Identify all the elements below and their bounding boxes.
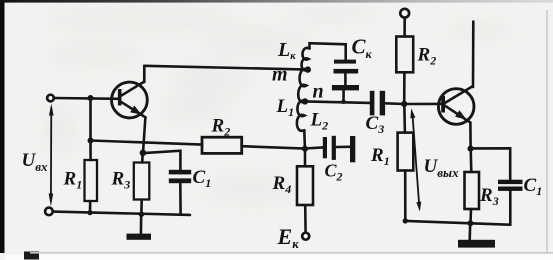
terminal Ek — [302, 233, 309, 240]
node: R1 rail dot — [87, 210, 92, 215]
voltage arrow Uvyx — [410, 108, 421, 211]
ground (stage 2) — [458, 223, 495, 247]
wire: R3 to rail — [140, 200, 143, 215]
wire: J2 to R1 — [89, 141, 92, 161]
ground (stage 1) — [127, 214, 152, 240]
wire: C1 to rail — [509, 191, 512, 225]
input terminal bottom — [45, 208, 53, 216]
wire: base node to R1 — [403, 104, 406, 133]
capacitor C3 — [370, 91, 385, 116]
node: base junction J1 — [88, 95, 94, 101]
wire: C1 to rail — [179, 183, 182, 214]
wire: R3 to rail — [469, 209, 472, 223]
resistor R1 (stage 2) — [398, 133, 414, 171]
wire: R2 to tank bottom — [242, 146, 305, 148]
wire: collector line to tank tap m — [144, 66, 307, 70]
input terminal top — [47, 95, 54, 102]
wire: input to Q1 base — [54, 97, 118, 100]
node: R3 rail dot — [139, 211, 145, 217]
wire: R4 to Ek terminal — [304, 205, 307, 233]
wire: Q2 emitter down — [469, 122, 472, 148]
wire: R1 to rail — [404, 171, 407, 221]
voltage arrow Uvx — [49, 104, 54, 207]
wire: J2 to R2 (line A) — [91, 141, 203, 145]
wire: Q1 emitter down — [143, 117, 145, 152]
node: tank bottom junction J5 — [302, 146, 308, 152]
wire: J3 to R3 — [141, 153, 144, 163]
node: R1 top junction J2 — [88, 138, 94, 144]
svg-text:m: m — [272, 64, 288, 86]
wire: C3 to base node — [385, 102, 404, 105]
supply terminal — [400, 9, 409, 18]
wire: Q1 collector up — [143, 66, 146, 82]
node: Q2 base node J6 — [401, 101, 407, 107]
wire: coil top lead to Ck — [310, 43, 346, 59]
wire: J7 to C1 corner — [471, 148, 511, 179]
wire: J5 to R4 — [304, 149, 307, 167]
wire: R2 down to base node — [403, 72, 406, 104]
node: tap n — [302, 98, 308, 104]
capacitor Ck — [332, 60, 359, 91]
wire: J1 down to R1 node — [89, 98, 92, 141]
wire: Ck bottom lead — [342, 90, 345, 101]
transistor Q1 — [111, 82, 147, 118]
inductor coil Lk/L1/L2 — [297, 48, 310, 131]
node: tap m — [305, 66, 311, 72]
wire: R2 to supply terminal — [403, 18, 406, 37]
capacitor C1 (stage 2) — [498, 180, 523, 191]
wire: n-line to C3 — [305, 101, 370, 103]
wire: J7 to R3 — [469, 149, 472, 172]
node: emitter junction J3 — [140, 150, 147, 157]
node: Ck on n-line — [341, 99, 346, 104]
wire: Q2 collector up — [472, 22, 475, 88]
node: emitter junction J7 — [468, 146, 474, 152]
resistor R4 — [297, 166, 313, 205]
capacitor C1 (stage 1) — [169, 170, 191, 183]
resistor R2 (stage 2) — [396, 37, 413, 73]
resistor R1 (stage 1) — [85, 160, 98, 201]
node: ground dot — [467, 220, 473, 226]
wire: bottom rail left — [53, 212, 190, 215]
wire: bottom rail right — [405, 221, 510, 225]
wire: coil bottom to J5 — [303, 130, 306, 148]
resistor R2 (stage 1, horizontal) — [202, 137, 242, 153]
resistor R3 (stage 2) — [465, 172, 480, 209]
wire: base node to Q2 — [404, 103, 441, 106]
capacitor C2 — [305, 136, 355, 163]
transistor Q2 — [438, 86, 474, 124]
wire: R1 to rail — [89, 201, 92, 213]
svg-text:n: n — [313, 81, 324, 103]
resistor R3 (stage 1) — [134, 163, 150, 200]
wire: Ck middle lead — [344, 74, 347, 86]
wire: J3 to C1 (line B) — [146, 151, 181, 170]
node: R1 rail dot — [403, 218, 408, 223]
